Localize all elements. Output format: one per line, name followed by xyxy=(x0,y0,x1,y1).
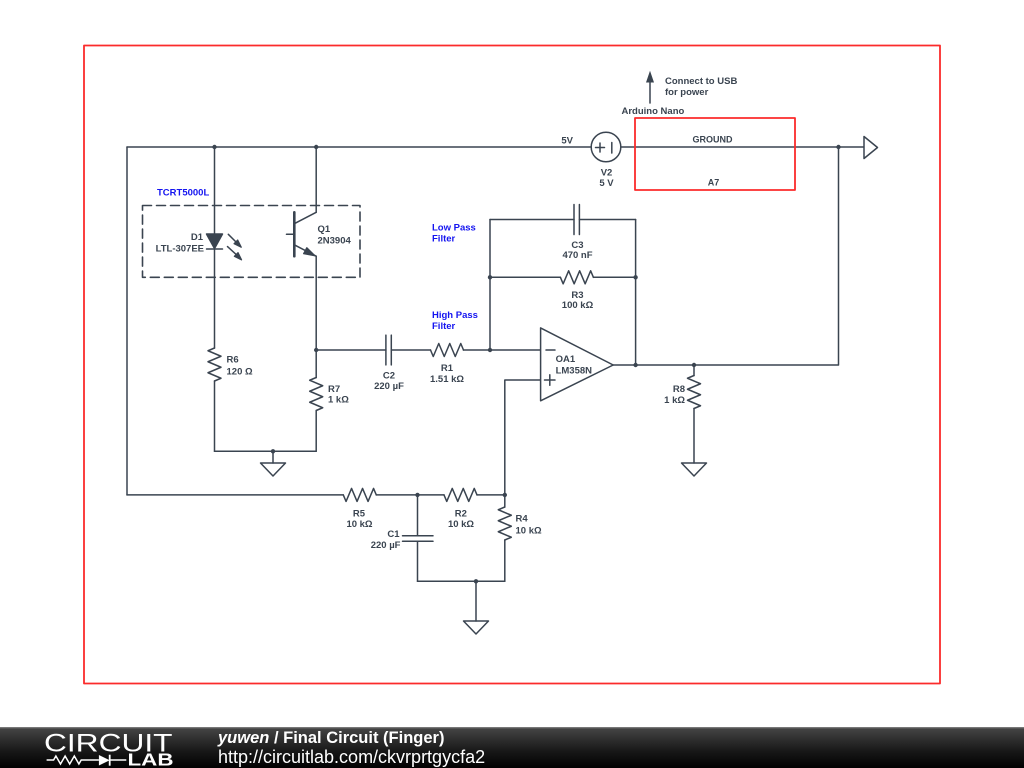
capacitor C3 plates xyxy=(574,205,579,235)
wire: C3 branch horizontal xyxy=(490,219,636,221)
junction node R8/output xyxy=(692,363,696,367)
ground symbol under R6/R7 net xyxy=(261,463,286,476)
wire: node at Q1 emitter to C2 xyxy=(316,349,386,351)
junction node at Q1 emitter/C2 xyxy=(314,348,318,352)
junction node feedback right R3/C3 xyxy=(633,275,637,279)
svg-text:A7: A7 xyxy=(708,178,720,188)
wire: top horizontal from V2 to output flag xyxy=(621,146,864,148)
svg-text:C1: C1 xyxy=(387,529,400,540)
wire: C1 branch leads xyxy=(417,495,419,581)
wire: R8 branch leads xyxy=(693,365,695,463)
op-amp OA1 triangle xyxy=(541,328,614,401)
svg-text:1 kΩ: 1 kΩ xyxy=(328,395,349,406)
voltage source V2 minus bar xyxy=(611,143,613,154)
svg-text:TCRT5000L: TCRT5000L xyxy=(157,188,209,199)
transistor Q1 emitter diagonal with arrow xyxy=(294,245,316,256)
transistor Q1 base bar xyxy=(293,212,296,256)
svg-text:120 Ω: 120 Ω xyxy=(227,367,253,378)
wire: R3 branch horizontal xyxy=(490,276,636,278)
wire: D1 anode drop from top rail xyxy=(214,147,216,234)
logo resistor zigzag xyxy=(47,756,99,764)
transistor Q1 collector diagonal xyxy=(294,212,316,223)
op-amp OA1 plus symbol xyxy=(545,375,556,386)
wire: bottom ground net horizontal xyxy=(418,580,505,582)
resistor R1 (horizontal zigzag) xyxy=(431,344,464,357)
diode D1 light arrow 1 xyxy=(228,234,241,247)
dashed box TCRT5000L module xyxy=(143,206,361,278)
junction node at D1/top rail xyxy=(212,145,216,149)
highlight box around Arduino Nano pins GROUND/A7 xyxy=(635,118,795,190)
resistor R2 (horizontal zigzag) xyxy=(444,488,477,501)
wire: ground stem under R6/R7 net xyxy=(272,451,274,463)
junction node at riser/top rail xyxy=(836,145,840,149)
wire: ground stem under C1/R4 net xyxy=(475,581,477,621)
svg-text:Filter: Filter xyxy=(432,234,456,245)
logo diode xyxy=(99,755,110,766)
footer credits text xyxy=(218,730,485,766)
wire: ground net horizontal under R6/R7 xyxy=(215,450,317,452)
wire: op-amp output to right vertical riser xyxy=(613,147,838,365)
capacitor C2 plates xyxy=(386,335,391,365)
svg-text:Low Pass: Low Pass xyxy=(432,223,476,234)
ground symbol under C1/R4 net xyxy=(464,621,489,634)
svg-text:470 nF: 470 nF xyxy=(562,250,592,261)
svg-text:5V: 5V xyxy=(561,136,573,147)
diode D1 light arrow 2 xyxy=(228,247,242,260)
wire: D1 cathode to R6 and R6 to ground net xyxy=(214,249,216,451)
wire: C2 to R1 to op-amp inverting input xyxy=(391,349,540,351)
wire: 5V net, top horizontal left of V2 xyxy=(127,146,592,148)
resistor R4 (vertical zigzag) xyxy=(498,507,511,540)
red plot selection border xyxy=(84,46,940,684)
svg-text:R6: R6 xyxy=(227,355,239,366)
svg-text:100 kΩ: 100 kΩ xyxy=(562,300,594,311)
svg-text:V2: V2 xyxy=(601,168,613,179)
junction node at Q1 collector/top rail xyxy=(314,145,318,149)
wire: left vertical rail xyxy=(126,147,128,495)
svg-text:LM358N: LM358N xyxy=(556,366,593,377)
junction node ground net under R6/R7 xyxy=(271,449,275,453)
svg-text:10 kΩ: 10 kΩ xyxy=(346,519,372,530)
svg-text:1 kΩ: 1 kΩ xyxy=(664,395,685,406)
junction node R2/R4/plus-input xyxy=(503,493,507,497)
resistor R3 (horizontal zigzag) xyxy=(560,271,593,284)
resistor R7 (vertical zigzag) xyxy=(310,378,323,411)
svg-text:10 kΩ: 10 kΩ xyxy=(516,526,542,537)
svg-text:2N3904: 2N3904 xyxy=(318,236,352,247)
footer bar xyxy=(0,727,1024,768)
voltage source V2 circle xyxy=(591,132,621,162)
svg-text:LAB: LAB xyxy=(128,750,174,768)
svg-text:R7: R7 xyxy=(328,384,340,395)
voltage source V2 plus sign xyxy=(596,143,605,152)
annotation arrow: connect to USB xyxy=(646,71,654,103)
svg-text:10 kΩ: 10 kΩ xyxy=(448,519,474,530)
diode D1 cathode bar xyxy=(207,248,223,250)
wire: feedback right vertical to output xyxy=(635,220,637,366)
op-amp OA1 minus symbol xyxy=(546,349,555,351)
wire: Q1 emitter down through node to R7 and ground net xyxy=(315,256,317,451)
svg-text:Arduino Nano: Arduino Nano xyxy=(622,106,685,117)
resistor R8 (vertical zigzag) xyxy=(688,376,701,409)
transistor Q1 base lead xyxy=(287,233,295,235)
svg-text:R2: R2 xyxy=(455,509,467,520)
svg-text:Filter: Filter xyxy=(432,321,456,332)
svg-text:GROUND: GROUND xyxy=(693,135,733,145)
svg-text:Q1: Q1 xyxy=(318,224,331,235)
svg-text:Connect to USB: Connect to USB xyxy=(665,76,737,87)
svg-text:220 µF: 220 µF xyxy=(374,381,404,392)
wire: R4 branch leads xyxy=(504,495,506,581)
junction node C1/bottom net xyxy=(415,493,419,497)
capacitor C1 plates xyxy=(403,536,434,541)
wire: feedback left vertical xyxy=(489,220,491,351)
wire: Q1 collector to top rail xyxy=(315,147,317,212)
output flag arrow at right of top net xyxy=(864,137,878,159)
svg-text:R8: R8 xyxy=(673,384,685,395)
diode D1 LED triangle xyxy=(207,234,223,249)
svg-text:OA1: OA1 xyxy=(556,354,576,365)
svg-text:High Pass: High Pass xyxy=(432,310,478,321)
svg-text:5 V: 5 V xyxy=(599,178,614,189)
svg-text:D1: D1 xyxy=(191,232,204,243)
wire: bottom net horizontal with R5 and R2 leads xyxy=(127,494,505,496)
svg-text:220 µF: 220 µF xyxy=(371,540,401,551)
junction node feedback/output xyxy=(633,363,637,367)
junction node ground under C1/R4 xyxy=(474,579,478,583)
resistor R6 (vertical zigzag) xyxy=(208,348,221,381)
svg-text:C2: C2 xyxy=(383,371,395,382)
svg-text:R4: R4 xyxy=(516,514,529,525)
svg-text:1.51 kΩ: 1.51 kΩ xyxy=(430,374,464,385)
svg-text:LTL-307EE: LTL-307EE xyxy=(156,244,204,255)
resistor R5 (horizontal zigzag) xyxy=(343,488,376,501)
junction node at R1/op-amp input/feedback xyxy=(488,348,492,352)
svg-text:R1: R1 xyxy=(441,363,454,374)
wire: op-amp non-inverting input from bottom net xyxy=(505,380,541,495)
svg-text:R5: R5 xyxy=(353,509,366,520)
svg-text:for power: for power xyxy=(665,87,709,98)
junction node feedback left R3/C3 xyxy=(488,275,492,279)
ground symbol under R8 xyxy=(682,463,707,476)
